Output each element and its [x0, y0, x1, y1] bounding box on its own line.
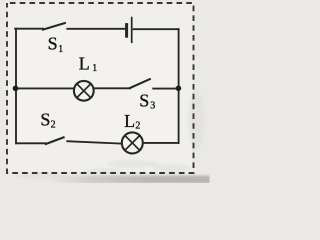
- battery positive plate: [131, 18, 133, 43]
- svg-text:1: 1: [92, 63, 97, 74]
- svg-text:L: L: [124, 111, 135, 131]
- wire middle left segment: [16, 87, 73, 89]
- wire S1 to battery: [67, 28, 124, 30]
- lamp L2: [122, 132, 143, 153]
- svg-text:S: S: [40, 110, 50, 130]
- label S3: [139, 90, 155, 111]
- svg-text:1: 1: [58, 44, 63, 55]
- svg-text:2: 2: [135, 121, 140, 132]
- switch S3: [130, 79, 150, 88]
- wire left vertical: [15, 29, 17, 144]
- wire bottom left segment: [16, 142, 46, 144]
- wire L1 to S3: [95, 87, 131, 89]
- svg-text:3: 3: [150, 101, 155, 112]
- wire top left segment: [15, 28, 43, 30]
- wire battery to top-right corner: [134, 28, 179, 30]
- label S1: [48, 34, 64, 55]
- svg-text:L: L: [79, 53, 90, 73]
- node right junction: [176, 86, 182, 92]
- node left junction: [13, 86, 19, 92]
- svg-text:S: S: [48, 34, 58, 54]
- switch S1: [43, 23, 65, 30]
- svg-text:S: S: [139, 90, 149, 110]
- svg-text:2: 2: [51, 120, 56, 131]
- label L2: [124, 111, 140, 132]
- wire S3 to right node: [153, 88, 177, 90]
- label S2: [40, 110, 55, 131]
- wire L2 to S2: [67, 141, 121, 143]
- battery negative plate: [125, 25, 128, 37]
- switch S2: [46, 137, 64, 144]
- wire right vertical: [178, 29, 180, 143]
- lamp L1: [74, 81, 94, 101]
- wire bottom right segment: [143, 142, 178, 144]
- label L1: [79, 53, 97, 73]
